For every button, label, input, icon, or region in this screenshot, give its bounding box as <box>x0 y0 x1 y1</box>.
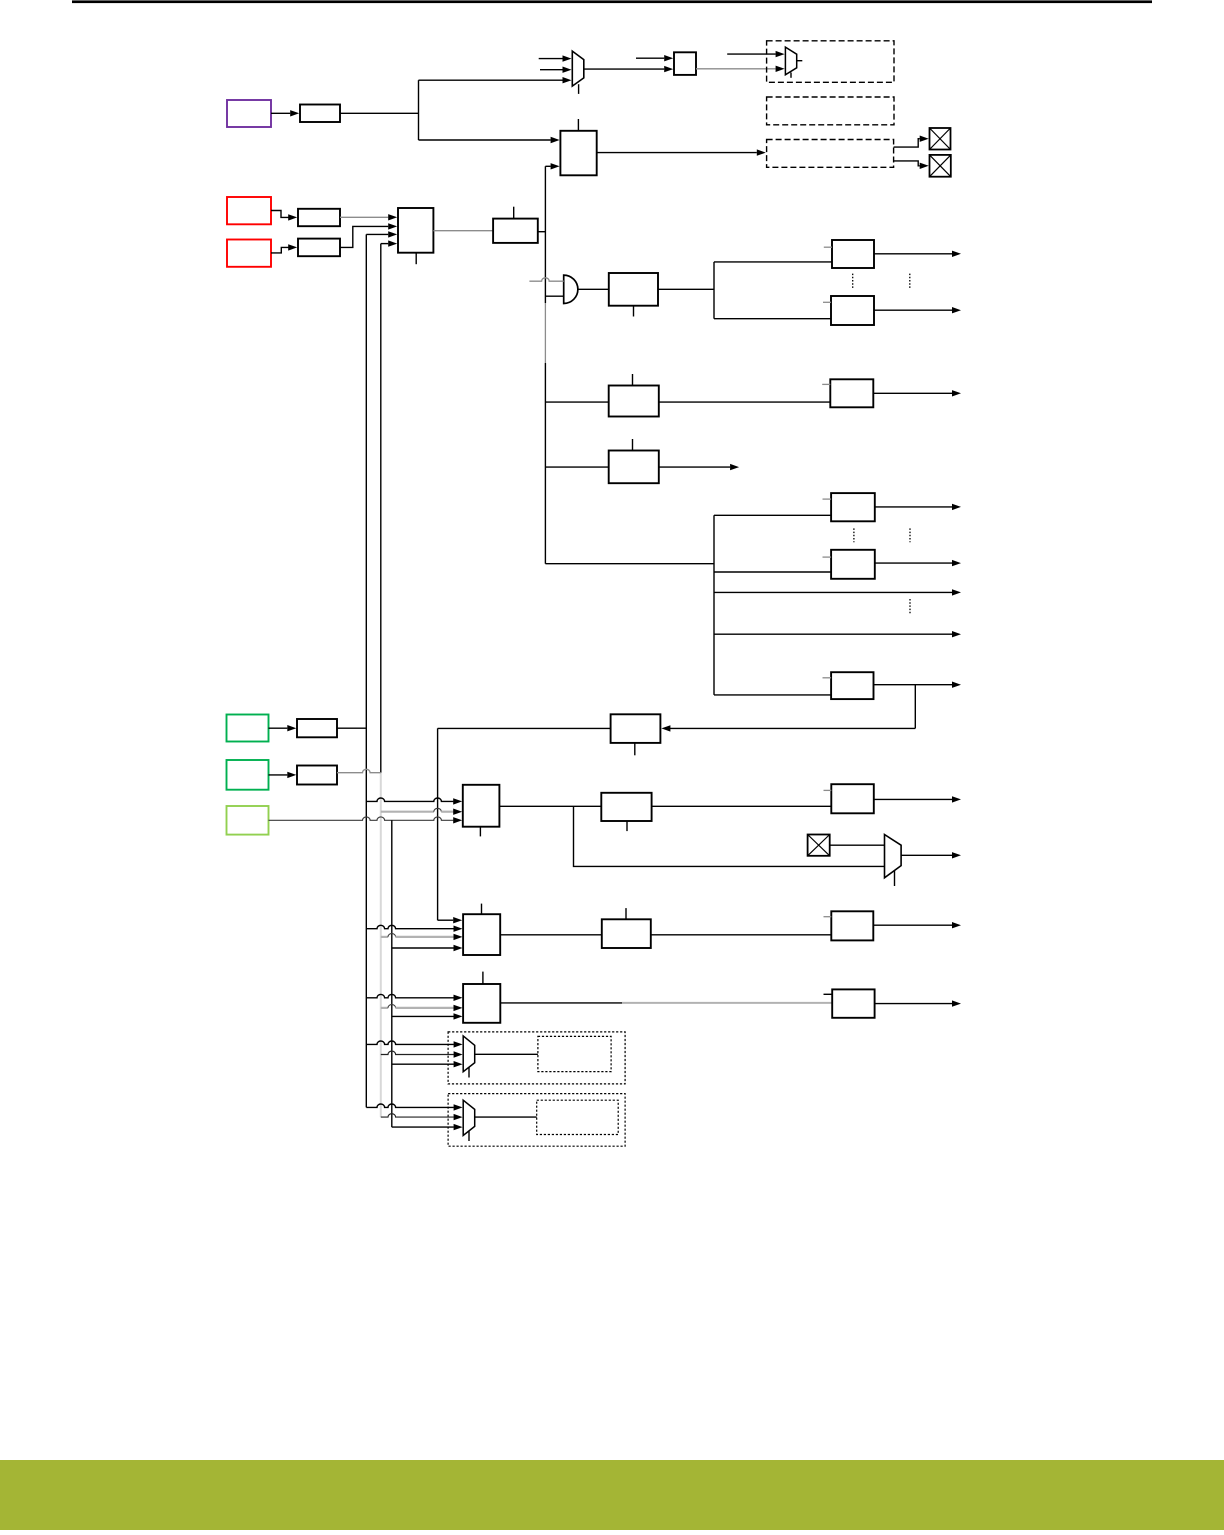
bus wire 3 vertical <box>391 820 393 1127</box>
block HFXO source (purple) <box>227 100 271 127</box>
block M1d <box>609 386 659 417</box>
mux M2 <box>785 47 796 75</box>
ellipsis marks between R1t and R2t <box>853 274 910 289</box>
block BG2 left tick <box>824 916 832 918</box>
block R3t left tick <box>822 383 830 385</box>
wire into block B4 (leftward arrow) <box>661 725 915 731</box>
block C1 bottom stub <box>415 253 417 265</box>
wire bus2 end to mux M4 input 2 (thin dark, hop) <box>381 1114 463 1121</box>
wire register red1 to block C1 input 1 <box>340 214 397 220</box>
bus V1 vertical gray segment <box>544 303 546 363</box>
block BL <box>832 989 874 1017</box>
mux M4 select stub <box>468 1131 470 1141</box>
wire block RB output arrow <box>875 560 961 566</box>
wire block BJ output to block BG2 <box>651 934 832 936</box>
wire bus V3 straight output arrow 2 <box>714 631 961 637</box>
wire block R3t output arrow <box>873 390 961 396</box>
wire yellow-green to block BE input 3 (dark thin, hops) <box>269 817 463 824</box>
block B2 <box>493 219 538 243</box>
block RC <box>831 672 873 699</box>
footer band <box>0 1460 1224 1530</box>
top rule <box>72 0 1152 3</box>
mux M1 <box>572 51 584 86</box>
block LFXO source (red 1) <box>227 197 271 224</box>
wire block B4 output left <box>438 727 611 729</box>
wire bus V3 straight output arrow 1 <box>714 589 961 595</box>
block BF bottom stub <box>626 821 628 831</box>
pad X1 <box>930 128 951 150</box>
wire bus V1 to block B1 input 2 <box>545 163 559 169</box>
wire dashed box D3 to pad X1 <box>894 136 929 148</box>
block BI top stub <box>481 904 483 915</box>
block BL left tick <box>824 993 833 995</box>
block S <box>674 52 696 75</box>
bus V1 vertical lower <box>544 363 546 564</box>
wire bus1 to block C1 input 3 <box>366 231 397 237</box>
bus V1 vertical upper <box>544 166 546 303</box>
wire bus1 end to mux M4 input 1 (hops) <box>366 1104 462 1111</box>
block BF <box>601 793 651 821</box>
wire block BK output black part <box>500 1002 622 1004</box>
wire bus1 to block BK input 1 (hops) <box>366 994 462 1001</box>
block R1t <box>832 240 874 268</box>
bus wire 1 vertical <box>365 234 367 1107</box>
wire mux M1 input 2 <box>540 67 572 73</box>
register box after green 2 <box>297 766 337 785</box>
block B4 bottom stub <box>634 743 636 755</box>
dashed box DB2 <box>448 1094 625 1147</box>
block LFB source (green 2) <box>227 760 269 790</box>
mux MH select stub <box>894 871 896 886</box>
block BI <box>463 914 500 955</box>
wire bus2 to block BE input 2 (light thick, hop) <box>381 808 462 815</box>
block BG <box>831 784 874 813</box>
block BE <box>463 785 500 827</box>
dashed box D1 <box>767 41 894 83</box>
block BK top stub <box>482 972 484 984</box>
wire red 2 to register <box>271 244 297 253</box>
wire pad X3 to mux MH <box>830 844 885 846</box>
dashed inner box IR2 <box>537 1100 619 1134</box>
mux MH <box>885 835 902 878</box>
block B3 <box>609 273 658 306</box>
wire bus V2 to block R1t <box>714 261 832 263</box>
block R1t left tick <box>824 246 832 248</box>
block LFRCO source (red 2) <box>227 240 271 267</box>
wire bus2 to mux M3 input 2 (thin dark, hop) <box>381 1051 463 1058</box>
wire bus1 to block BE input 1 (hops) <box>366 798 462 805</box>
wire bus2 to block BK input 2 (light thick, hop) <box>381 1005 463 1012</box>
wire block BG2 output arrow <box>873 922 961 928</box>
wire bus V1 to block M1d <box>545 401 608 403</box>
wire register green1 to bus1 <box>337 727 366 729</box>
register box after red 2 <box>298 239 340 257</box>
wire bus V3 to block RA <box>714 514 831 516</box>
bus wire 2 vertical upper <box>380 244 382 773</box>
wire bus3 to mux M3 input 3 <box>392 1061 463 1067</box>
ellipsis marks between RA and RB <box>854 528 910 542</box>
wire block S output to mux M2 <box>696 66 785 72</box>
wire RC output tee down <box>914 685 916 729</box>
block BG left tick <box>824 789 832 791</box>
bus V3 vertical <box>713 515 715 695</box>
block ULFRCO source (yellow-green) <box>227 806 269 835</box>
node tee vertical <box>418 80 420 140</box>
wire mux M3 output to inner box <box>475 1053 538 1055</box>
wire bus V3 to block RB <box>714 571 831 573</box>
wire register to tee node <box>340 112 419 114</box>
block RB left tick <box>823 556 832 558</box>
block B1 top stub <box>577 119 579 131</box>
wire and gate G1 input 2 <box>545 295 563 297</box>
block M2d top stub <box>632 439 634 451</box>
block M1d top stub <box>632 374 634 386</box>
wire block BK output gray part <box>622 1002 832 1004</box>
dashed box D2 <box>767 97 894 125</box>
pad X2 <box>930 155 951 177</box>
mux M2 output stub <box>797 60 803 62</box>
wire green 2 to register <box>269 772 297 778</box>
mux M3 select stub <box>468 1068 470 1078</box>
wire mux M1 input 1 <box>539 55 572 61</box>
mux M4 <box>463 1100 475 1135</box>
dashed inner box IR1 <box>538 1036 611 1071</box>
wire into block S input 1 <box>636 55 673 61</box>
wire bus2 to block C1 input 4 <box>381 240 397 246</box>
wire block BI output to block BJ <box>500 934 602 936</box>
block B2 top stub <box>513 207 515 219</box>
block R3t <box>830 379 873 407</box>
block BJ top stub <box>625 908 627 919</box>
wire register red2 to block C1 input 2 <box>340 223 397 247</box>
block M2d <box>609 451 659 484</box>
block LFA source (green 1) <box>227 715 269 742</box>
wire and gate G1 input 1 (gray, hop) <box>529 278 563 281</box>
bus V4 vertical <box>437 728 439 920</box>
wire block BL output arrow <box>875 1000 961 1006</box>
wire floating to mux M2 input 1 <box>727 51 784 57</box>
wire mux MH output arrow <box>901 852 961 858</box>
and gate G1 <box>564 275 578 303</box>
wire block R2t output arrow <box>874 307 961 313</box>
wire tee to block B1 input 1 <box>419 137 560 143</box>
block B4 <box>611 714 661 743</box>
wire register green2 to bus2 (gray, hop) <box>337 769 381 772</box>
mux M2 select stub <box>790 73 792 78</box>
block B3 bottom stub <box>633 306 635 317</box>
wire block B1 output to dashed box D3 <box>597 149 766 155</box>
wire mux M4 output to inner box <box>475 1116 537 1118</box>
wire bus V2 to block R2t <box>714 318 831 320</box>
register box after red 1 <box>298 209 340 226</box>
mux M3 <box>463 1036 475 1072</box>
wire block C1 output to block B2 <box>433 230 493 232</box>
wire block BE output to block BF <box>499 805 601 807</box>
wire bus2 to block BI input 3 (light thick, hop) <box>381 934 463 941</box>
wire bus3 to block BK input 3 <box>392 1013 463 1019</box>
block BE bottom stub <box>479 827 481 837</box>
block RA <box>831 493 875 521</box>
block BK <box>463 984 500 1023</box>
block BJ <box>602 919 651 948</box>
wire dashed box D3 to pad X2 <box>894 161 929 169</box>
block RC left tick <box>823 677 832 679</box>
register box after purple source <box>300 105 340 123</box>
wire bus V1 bottom to bus V3 <box>545 563 714 565</box>
block RB <box>831 550 875 579</box>
wire bus1 to block BI input 2 (hops) <box>366 925 462 932</box>
wire block M2d output arrow <box>659 464 739 470</box>
block R2t left tick <box>823 301 831 303</box>
pad X3 <box>808 835 830 856</box>
wire bus3 to block BI input 4 <box>392 945 463 951</box>
wire mux M1 output to block S <box>584 66 673 72</box>
wire red 1 to register <box>271 211 297 221</box>
wire bus V3 to block RC <box>714 694 831 696</box>
wire block R1t output arrow <box>874 251 961 257</box>
wire bus V1 to block M2d <box>545 466 608 468</box>
wire block M1d output to block R3t <box>659 401 831 403</box>
dashed box D3 <box>767 140 894 168</box>
wire block RC output arrow <box>874 682 962 688</box>
bus V2 vertical <box>713 262 715 319</box>
register box after green 1 <box>297 719 337 737</box>
block RA left tick <box>823 498 832 500</box>
wire bus V4 to block BE input 1... wait BI <box>438 917 463 923</box>
block B1 <box>560 131 596 176</box>
dashed box DB1 <box>448 1032 625 1084</box>
wire and gate G1 output to block B3 <box>578 288 609 290</box>
mux M1 select stub <box>578 84 580 94</box>
wire bus1 to mux M3 input 1 (hops) <box>366 1041 462 1048</box>
wire green 1 to register <box>269 725 297 731</box>
ellipsis mark below straight output 1 <box>909 599 911 613</box>
block C1 <box>398 208 433 253</box>
block BG2 <box>831 911 873 940</box>
wire block B3 output to bus V2 <box>658 288 714 290</box>
wire block BF output to block BG <box>652 805 832 807</box>
wire purple source to register <box>271 110 299 116</box>
wire block B2 output to bus V1 <box>538 231 546 233</box>
wire block RA output arrow <box>875 504 961 510</box>
block R2t <box>831 296 874 325</box>
wire block BG output arrow <box>874 796 961 802</box>
wire bus3 end to mux M4 input 3 <box>392 1124 463 1130</box>
wire tee to mux M1 input 3 <box>419 77 572 83</box>
wire tee down to mux MH <box>574 806 885 866</box>
bus wire 2 vertical lower (light) <box>380 773 382 1117</box>
